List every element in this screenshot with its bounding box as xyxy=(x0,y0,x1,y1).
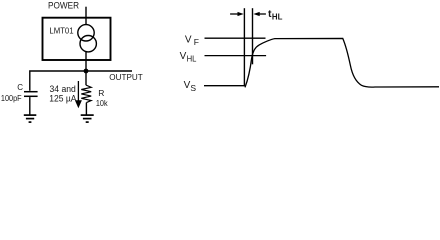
svg-text:10k: 10k xyxy=(96,98,108,108)
ground (resistor) xyxy=(81,115,94,122)
wire resistor to ground xyxy=(85,103,87,115)
ground (capacitor) xyxy=(24,115,37,122)
level line VF xyxy=(205,37,266,39)
svg-text:HL: HL xyxy=(272,12,283,22)
current source I1 lower circle xyxy=(80,36,96,52)
level line VHL xyxy=(205,55,267,57)
svg-text:V: V xyxy=(180,51,187,62)
svg-text:F: F xyxy=(194,37,199,47)
svg-text:HL: HL xyxy=(187,53,197,63)
wire node to OUTPUT stub xyxy=(86,70,132,72)
wire node to capacitor C xyxy=(30,71,86,91)
capacitor C plates xyxy=(24,91,38,93)
resistor R zigzag xyxy=(81,85,91,103)
svg-text:125 µA: 125 µA xyxy=(49,93,76,103)
svg-text:LMT01: LMT01 xyxy=(49,27,74,36)
wire node to resistor R xyxy=(85,71,87,85)
tHL marker line right xyxy=(252,8,254,64)
IC U1 LMT01 box xyxy=(43,18,111,60)
level line VS xyxy=(204,85,244,87)
arrow pointing right at left marker xyxy=(230,13,238,15)
arrow pointing left at right marker xyxy=(259,13,266,15)
svg-text:S: S xyxy=(190,83,196,93)
svg-text:POWER: POWER xyxy=(48,1,79,11)
wire capacitor to ground xyxy=(29,97,31,115)
wire current source bottom to output node xyxy=(85,52,87,72)
current arrow 34 and 125 uA xyxy=(77,81,79,101)
svg-text:100pF: 100pF xyxy=(1,93,22,103)
waveform output pulse xyxy=(245,38,439,87)
tHL marker line left xyxy=(243,8,245,86)
junction node OUTPUT xyxy=(84,69,89,74)
svg-text:R: R xyxy=(98,88,104,98)
svg-text:V: V xyxy=(185,35,192,46)
svg-text:OUTPUT: OUTPUT xyxy=(109,72,142,82)
current source I1 upper circle xyxy=(78,25,94,41)
svg-text:C: C xyxy=(17,83,23,92)
wire POWER to current source top xyxy=(85,7,87,25)
